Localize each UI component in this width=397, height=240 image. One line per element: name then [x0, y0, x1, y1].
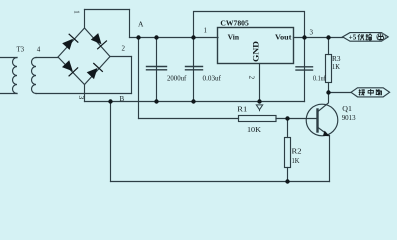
- wire R2 bottom lead: [287, 168, 289, 182]
- wire to R1 left: [139, 118, 239, 120]
- node dot A rail C1: [154, 35, 158, 39]
- node dot B rail C1: [154, 99, 158, 103]
- R3 bottom lead: [328, 83, 330, 93]
- Q1 base bar: [316, 110, 318, 132]
- svg-text:3: 3: [77, 96, 86, 100]
- flag +5V output hexagon: [343, 33, 389, 42]
- svg-text:R1: R1: [237, 106, 248, 114]
- resistor R1 box: [239, 116, 277, 122]
- svg-text:3: 3: [310, 29, 314, 37]
- wire R1 right to base: [276, 118, 317, 120]
- node dot pin3 box edge: [302, 35, 306, 39]
- glyph shu 输: [366, 34, 372, 40]
- diode D3 bottom-left (points down-right): [62, 60, 78, 76]
- capacitor C2 0.03uf inline on outer box left edge: box drawn below: [186, 67, 203, 70]
- node dot Vout R3: [326, 35, 330, 39]
- flag2 interrupt hexagon: [351, 88, 390, 97]
- glyph chu 出 with ring: [378, 34, 384, 40]
- svg-text:B: B: [120, 95, 125, 103]
- wire node A down to R1: [138, 38, 140, 119]
- wire down to node A rail: [129, 10, 131, 38]
- node dot B rail box corner: [191, 99, 195, 103]
- diode D1 top-left (points up-right): [62, 34, 78, 50]
- transformer primary lead bottom: [0, 93, 17, 95]
- capacitor C1 plates: [147, 67, 167, 70]
- resistor R2 box: [285, 138, 291, 168]
- svg-text:9013: 9013: [342, 114, 356, 122]
- wire right vertex to x131: [110, 56, 132, 58]
- node dot B rail drop: [108, 99, 112, 103]
- svg-text:0.03uf: 0.03uf: [203, 75, 222, 83]
- svg-text:T3: T3: [17, 46, 25, 54]
- svg-text:Q1: Q1: [342, 105, 352, 113]
- wire junction to flag2: [329, 92, 352, 94]
- svg-text:CW7805: CW7805: [220, 19, 249, 27]
- svg-text:2000uf: 2000uf: [167, 75, 187, 83]
- bridge diamond edges: [58, 28, 110, 85]
- svg-text:+5: +5: [349, 34, 357, 42]
- svg-text:Vin: Vin: [228, 34, 240, 42]
- node dot collector junction: [326, 90, 330, 94]
- transistor Q1 circle: [306, 104, 338, 136]
- glyph fu 伏: [358, 34, 364, 40]
- resistor R3 box: [326, 55, 332, 83]
- wire secondary top to bridge left vertex: [36, 57, 58, 59]
- svg-text:1: 1: [73, 10, 81, 14]
- node A rail: [130, 37, 219, 39]
- glyph jie 接: [359, 89, 365, 95]
- svg-text:1K: 1K: [292, 157, 300, 165]
- svg-text:R3: R3: [332, 55, 341, 63]
- capacitor C3 0.1uf plates (inline on outer box right edge): [296, 67, 313, 70]
- regulator U1 inner box: [218, 28, 294, 64]
- Q1 emitter: [318, 128, 330, 182]
- svg-text:R2: R2: [292, 147, 303, 155]
- transformer secondary winding: [32, 58, 37, 94]
- svg-text:A: A: [138, 20, 144, 29]
- svg-text:0.1uf: 0.1uf: [313, 75, 326, 83]
- wire R2 top lead: [287, 119, 289, 138]
- wire bridge top vertex up: [84, 10, 86, 29]
- node dot B rail GND: [257, 99, 261, 103]
- svg-text:1: 1: [204, 27, 208, 35]
- svg-text:10K: 10K: [247, 126, 261, 134]
- ring around chu: [377, 33, 386, 40]
- node B rail: [85, 101, 305, 103]
- node dot bottom rail R2: [285, 179, 289, 183]
- wire secondary bottom to x131: [36, 93, 132, 95]
- node dot base junction: [285, 116, 289, 120]
- wire top horizontal: [85, 9, 130, 11]
- wire x131 up to right vertex level: [131, 57, 133, 94]
- svg-text:4: 4: [37, 46, 41, 54]
- glyph duan 断: [376, 89, 382, 95]
- node dot A rail R1 branch: [136, 35, 140, 39]
- node dot A rail box edge: [191, 35, 195, 39]
- capacitor C1 2000uf lead: [156, 38, 158, 102]
- Q1 emitter arrowhead: [323, 131, 330, 137]
- diode D4 bottom-right (points up-right): [87, 63, 103, 79]
- R3 top lead: [328, 38, 330, 55]
- wire bridge bottom vertex down: [84, 85, 86, 102]
- svg-text:2: 2: [248, 76, 256, 80]
- Q1 collector: [318, 93, 329, 112]
- svg-text:2: 2: [122, 45, 126, 53]
- svg-text:Vout: Vout: [275, 34, 292, 42]
- Vout pin3 wire: [294, 37, 343, 39]
- wire node B down to bottom rail: [110, 102, 112, 182]
- svg-text:GND: GND: [252, 41, 261, 62]
- svg-text:1K: 1K: [332, 63, 340, 71]
- GND pin open arrow: [256, 105, 262, 111]
- glyph zhong 中: [368, 89, 373, 95]
- GND pin wire: [259, 64, 261, 102]
- bottom rail: [111, 181, 330, 183]
- transformer T3 primary winding: [12, 58, 17, 94]
- outer box: [194, 12, 305, 102]
- diode D2 top-right (points down-right): [91, 33, 107, 49]
- transformer T3 primary lead top: [0, 57, 17, 59]
